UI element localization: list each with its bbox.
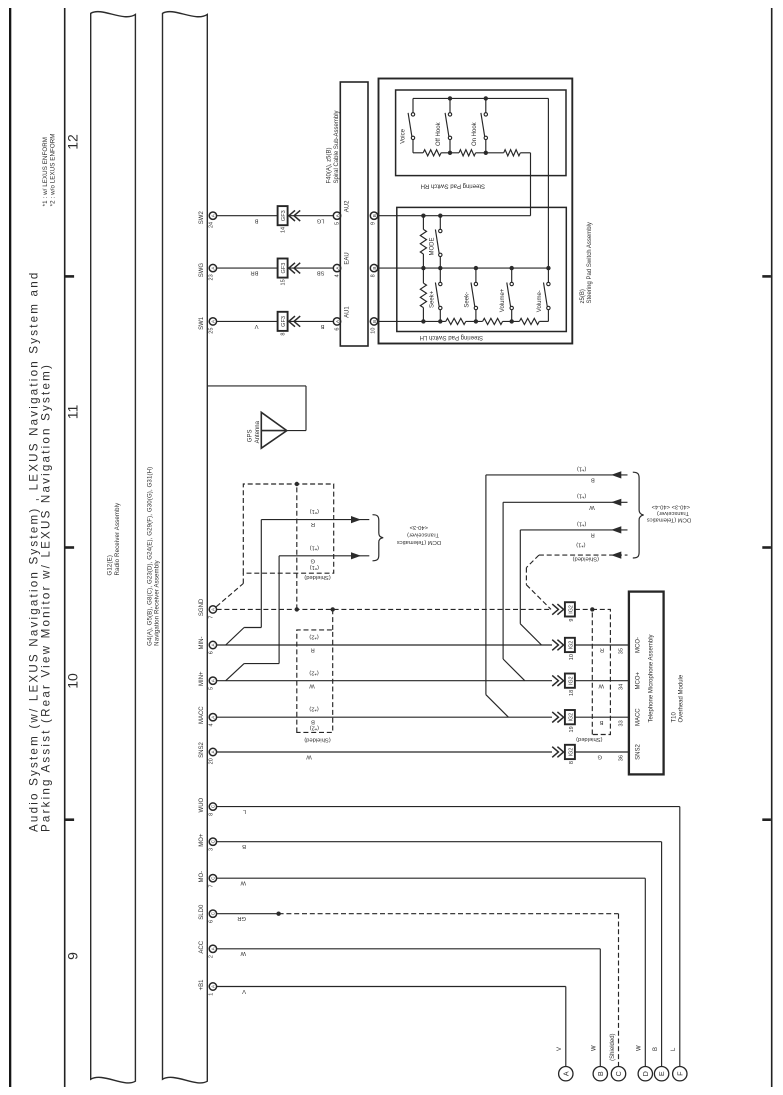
GPS antenna (248, 412, 287, 448)
wire SGND shield drain (dashed) (217, 608, 552, 610)
resistor LH Volume+ (483, 318, 503, 324)
svg-text:DCM (Telematics: DCM (Telematics (647, 516, 691, 522)
switch Seek+ (430, 268, 442, 321)
resistor LH Volume- (519, 318, 539, 324)
svg-text:W: W (240, 880, 246, 886)
wire MIN- lane (217, 634, 552, 653)
wire SW2 into assembly (378, 153, 531, 216)
pin 4 MACC (navigation receiver) (199, 706, 216, 727)
pin 5 AU2 (spiral cable) (333, 212, 340, 225)
junction connector IG2 pin 19 (552, 710, 575, 732)
svg-text:(*2): (*2) (309, 669, 318, 675)
svg-text:IG2: IG2 (569, 676, 575, 685)
svg-text:9: 9 (370, 222, 376, 225)
navigation receiver assembly G4(A)-G31(H) (147, 12, 208, 1083)
svg-text:33: 33 (618, 720, 624, 726)
svg-text:Transceiver): Transceiver) (657, 510, 689, 516)
pin 1 +B1 (navigation receiver) (199, 979, 216, 996)
svg-text:F40(A), z5(B): F40(A), z5(B) (327, 147, 333, 183)
svg-text:B: B (591, 477, 595, 483)
node RH bus Off Hook (448, 96, 452, 100)
svg-text:+B1: +B1 (199, 979, 205, 991)
svg-text:R: R (600, 647, 604, 653)
svg-text:Transceiver): Transceiver) (407, 531, 439, 537)
svg-text:R: R (311, 647, 315, 653)
svg-text:IG2: IG2 (569, 641, 575, 650)
svg-text:23: 23 (208, 274, 214, 280)
svg-text:LG: LG (316, 217, 324, 223)
DCM telematics transceiver (right) (633, 472, 691, 558)
wire SNS2 lane W (217, 752, 552, 760)
svg-text:Steering Pad Switch RH: Steering Pad Switch RH (421, 183, 485, 189)
svg-text:(*1): (*1) (577, 520, 586, 526)
pin 3 MO+ (navigation receiver) (199, 833, 216, 851)
node RH chain On Hook (484, 151, 488, 155)
svg-text:10: 10 (569, 654, 575, 660)
svg-text:*1 : w/ LEXUS ENFORM: *1 : w/ LEXUS ENFORM (42, 137, 49, 206)
junction connector GF3 pin 14 (278, 206, 301, 233)
svg-text:6: 6 (208, 651, 214, 654)
svg-text:Radio Receiver Assembly: Radio Receiver Assembly (114, 502, 121, 576)
resistor Seek+ (420, 268, 426, 321)
svg-text:Steering Pad Switch Assembly: Steering Pad Switch Assembly (587, 222, 593, 303)
svg-text:T10: T10 (671, 711, 677, 722)
node EAU Seek- (474, 266, 478, 270)
svg-text:MACC: MACC (199, 706, 205, 724)
svg-text:(Shielded): (Shielded) (573, 556, 599, 562)
switch On Hook (472, 98, 488, 152)
pin 2 ACC (navigation receiver) (199, 940, 216, 958)
svg-text:Voice: Voice (400, 128, 406, 143)
svg-text:MODE: MODE (430, 238, 436, 256)
svg-text:6: 6 (208, 920, 214, 923)
svg-text:Volume-: Volume- (537, 290, 543, 312)
svg-text:11: 11 (65, 405, 81, 420)
steering pad switch LH box (397, 207, 567, 340)
svg-text:7: 7 (208, 616, 214, 619)
wire DCM shield (dashed) (526, 542, 627, 610)
svg-text:<40-3>: <40-3> (409, 524, 428, 530)
wire DCM R (*1) to MCO- (520, 520, 627, 645)
svg-text:9: 9 (65, 952, 81, 960)
svg-text:AU2: AU2 (345, 200, 351, 212)
DCM telematics transceiver (left) (373, 515, 442, 561)
node chain Seek+ resistor (421, 319, 425, 323)
connector D (638, 1067, 652, 1081)
resistor RH Off Hook (459, 150, 476, 156)
wire SWG SB (287, 268, 333, 276)
wire WUO L to connector F (217, 807, 680, 1067)
svg-text:36: 36 (618, 755, 624, 761)
svg-text:MCO-: MCO- (636, 637, 642, 653)
wire GPS antenna feed (208, 386, 306, 431)
wire MACC lane (217, 706, 552, 731)
switch Seek- (464, 268, 477, 321)
pin 4 EAU (spiral cable) (333, 264, 340, 277)
svg-text:4: 4 (208, 723, 214, 726)
steering pad switch RH box (396, 90, 566, 189)
svg-text:(*1): (*1) (310, 508, 319, 514)
svg-text:B: B (596, 1071, 605, 1076)
wire DCM B (*1) to MACC (486, 465, 628, 717)
junction connector IG2 pin 9 (552, 602, 575, 621)
svg-text:Overhead Module: Overhead Module (679, 674, 685, 722)
node EAU Volume+ (510, 266, 514, 270)
node SW2 MODE switch tap (438, 214, 442, 218)
svg-text:W: W (306, 754, 312, 760)
connector C (611, 1067, 625, 1081)
pin 8 WUO (navigation receiver) (199, 797, 216, 815)
svg-text:*2 : w/o LEXUS ENFORM: *2 : w/o LEXUS ENFORM (49, 133, 56, 206)
wire MO+ B to connector E (217, 842, 662, 1067)
svg-text:18: 18 (569, 690, 575, 696)
wire SGND to shield box (575, 607, 595, 611)
pin 23 SWG (navigation receiver) (199, 263, 216, 281)
svg-text:3: 3 (208, 848, 214, 851)
steering pad switch assembly z5(B) (379, 79, 593, 344)
svg-text:Spiral Cable Sub-Assembly: Spiral Cable Sub-Assembly (334, 110, 340, 183)
svg-text:Parking Assist (Rear View Moni: Parking Assist (Rear View Monitor w/ LEX… (39, 363, 52, 832)
wire AU1 chain into assembly (378, 320, 549, 322)
svg-text:SWG: SWG (199, 263, 205, 278)
node RH chain Off Hook (448, 151, 452, 155)
junction connector GF3 pin 15 (278, 259, 301, 286)
svg-text:(*1): (*1) (310, 564, 319, 570)
svg-text:(Shielded): (Shielded) (304, 737, 330, 743)
node chain Volume+ (510, 319, 514, 323)
spiral cable sub-assembly F40(A) z5(B) (327, 82, 368, 346)
svg-text:8: 8 (370, 274, 376, 277)
svg-text:Seek+: Seek+ (430, 290, 436, 308)
svg-text:W: W (309, 682, 315, 688)
wire MACC B (575, 717, 629, 725)
junction connector IG2 pin 10 (552, 638, 575, 660)
svg-text:(*1): (*1) (310, 544, 319, 550)
radio receiver assembly G12(E) (91, 12, 136, 1083)
svg-text:B: B (255, 217, 259, 223)
svg-text:7: 7 (208, 884, 214, 887)
svg-text:4: 4 (334, 274, 340, 277)
svg-text:MO-: MO- (199, 871, 205, 883)
svg-text:<40-3> <40-4>: <40-3> <40-4> (651, 504, 690, 510)
svg-text:B: B (372, 267, 377, 270)
svg-text:DCM (Telematics: DCM (Telematics (397, 539, 441, 545)
svg-text:MO+: MO+ (199, 833, 205, 847)
svg-text:MIN+: MIN+ (199, 671, 205, 686)
switch MODE (430, 216, 442, 268)
svg-text:Volume+: Volume+ (500, 288, 506, 312)
node RH bus On Hook (484, 96, 488, 100)
svg-text:10: 10 (370, 328, 376, 334)
svg-text:GF3: GF3 (281, 316, 287, 327)
svg-text:SNS2: SNS2 (636, 744, 642, 760)
svg-text:MACC: MACC (636, 708, 642, 726)
switch Voice (400, 98, 414, 152)
node chain Seek- (474, 319, 478, 323)
svg-text:GF3: GF3 (281, 210, 287, 221)
shielded cable right (mic lines) (576, 609, 610, 742)
switch Off Hook (436, 98, 452, 152)
wire DCM W (*1) to MCO+ (503, 493, 627, 681)
resistor RH On Hook (504, 150, 521, 156)
svg-text:EAU: EAU (345, 252, 351, 264)
node EAU MODE switch (438, 266, 442, 270)
svg-text:1: 1 (208, 993, 214, 996)
svg-text:R: R (591, 532, 595, 538)
RH common bus (413, 98, 548, 268)
svg-text:SNS2: SNS2 (199, 742, 205, 758)
svg-text:G12(E): G12(E) (107, 555, 114, 576)
svg-text:Off Hook: Off Hook (436, 121, 442, 146)
svg-text:25: 25 (208, 328, 214, 334)
wire SW1 V (217, 321, 279, 329)
wire SW2 B (217, 216, 279, 224)
svg-text:35: 35 (618, 648, 624, 654)
svg-text:34: 34 (618, 684, 624, 690)
wire ACC W to connector B (217, 949, 601, 1067)
svg-text:(Shielded): (Shielded) (576, 736, 602, 742)
wire SW1 B (287, 321, 333, 329)
svg-text:19: 19 (569, 726, 575, 732)
svg-text:B: B (600, 719, 604, 725)
svg-text:W: W (637, 1045, 643, 1051)
pin 20 SNS2 (navigation receiver) (199, 742, 216, 765)
svg-text:ACC: ACC (199, 940, 205, 953)
svg-text:2: 2 (208, 955, 214, 958)
svg-text:AU1: AU1 (345, 306, 351, 318)
shielded cable (+1) R/G pair (243, 484, 333, 580)
svg-text:V: V (255, 323, 259, 329)
svg-text:IG2: IG2 (569, 605, 575, 614)
svg-text:5: 5 (334, 222, 340, 225)
svg-text:(*2): (*2) (309, 634, 318, 640)
RH resistor ladder bus (413, 152, 531, 154)
svg-text:SW2: SW2 (199, 211, 205, 225)
svg-text:SLD0: SLD0 (199, 904, 205, 920)
svg-text:Antenna: Antenna (255, 420, 261, 443)
svg-text:(Shielded): (Shielded) (304, 574, 330, 580)
svg-text:F: F (675, 1071, 684, 1076)
wire SW2 LG (287, 216, 333, 224)
svg-text:B: B (372, 320, 377, 323)
connector B (593, 1067, 607, 1081)
wire MCO+ W (575, 681, 629, 689)
wire +B1 V to connector A (217, 987, 566, 1067)
svg-text:W: W (598, 682, 604, 688)
svg-text:B: B (242, 843, 246, 849)
pin 8 EAU (spiral cable lower) (370, 264, 377, 277)
svg-text:B: B (321, 323, 325, 329)
wire MIN+ G to DCM (*1) (226, 544, 370, 680)
svg-text:B: B (372, 214, 377, 217)
connector A (559, 1067, 573, 1081)
svg-text:(*1): (*1) (577, 465, 586, 471)
wire MIN- R to DCM (*1) (226, 508, 370, 645)
pin 6 MIN- (navigation receiver) (199, 637, 216, 655)
svg-text:5: 5 (208, 687, 214, 690)
pin 9 AU2 (spiral cable lower) (370, 212, 377, 225)
pin 6 AU1 (spiral cable) (333, 318, 340, 331)
svg-text:On Hook: On Hook (472, 121, 478, 146)
svg-text:MCO+: MCO+ (636, 671, 642, 689)
node SW2 MODE resistor tap (421, 214, 425, 218)
svg-text:(*1): (*1) (577, 493, 586, 499)
svg-text:8: 8 (281, 333, 287, 336)
wire SGND to upper shield (dashed diagonal) (216, 573, 243, 607)
svg-text:14: 14 (281, 227, 287, 233)
svg-text:z5(B): z5(B) (580, 289, 586, 303)
svg-text:B: B (653, 1047, 659, 1051)
connector E (654, 1067, 668, 1081)
svg-text:9: 9 (569, 619, 575, 622)
pin 5 MIN+ (navigation receiver) (199, 671, 216, 690)
svg-text:Telephone Microphone Assembly: Telephone Microphone Assembly (649, 634, 655, 722)
svg-text:R: R (311, 521, 315, 527)
svg-text:WUO: WUO (199, 797, 205, 812)
shielded cable (+2) lower (297, 630, 333, 743)
wire MO- W to connector D (217, 878, 646, 1066)
svg-text:SGND: SGND (199, 598, 205, 616)
pin 7 MO- (navigation receiver) (199, 871, 216, 888)
svg-text:8: 8 (208, 813, 214, 816)
svg-text:Seek-: Seek- (464, 292, 470, 308)
junction connector IG2 pin 8 (552, 745, 575, 764)
svg-text:IG2: IG2 (569, 748, 575, 757)
junction connector GF3 pin 8 (278, 312, 301, 336)
svg-text:(*2): (*2) (309, 706, 318, 712)
node EAU / RH bus / Volume- (546, 266, 550, 270)
svg-text:10: 10 (65, 673, 81, 689)
svg-text:W: W (589, 504, 595, 510)
svg-text:SB: SB (317, 270, 325, 276)
wire SNS2 G (575, 752, 629, 760)
wire EAU into assembly (378, 267, 549, 269)
wire MIN+ lane (217, 669, 552, 688)
pin 25 SW1 (navigation receiver) (199, 316, 216, 333)
pin 6 SLD0 (navigation receiver) (199, 904, 216, 923)
svg-text:D: D (641, 1071, 650, 1076)
svg-text:W: W (592, 1045, 598, 1051)
wire MCO- R (575, 645, 629, 653)
svg-text:GPS: GPS (248, 430, 254, 443)
connector F (673, 1067, 687, 1081)
junction connector IG2 pin 18 (552, 674, 575, 696)
node shield tap lower box (331, 607, 335, 630)
svg-text:Navigation Receiver Assembly: Navigation Receiver Assembly (153, 559, 160, 645)
svg-text:B: B (311, 718, 315, 724)
svg-text:G: G (597, 754, 602, 760)
svg-text:SW1: SW1 (199, 316, 205, 330)
resistor RH Voice (423, 150, 441, 156)
svg-text:GR: GR (237, 915, 246, 921)
svg-text:6: 6 (334, 328, 340, 331)
svg-text:GF3: GF3 (281, 263, 287, 274)
svg-text:(*2): (*2) (310, 725, 319, 731)
pin 7 SGND (navigation receiver) (199, 598, 216, 619)
pin 24 SW2 (navigation receiver) (199, 211, 216, 228)
svg-text:Steering Pad Switch LH: Steering Pad Switch LH (420, 334, 483, 340)
node EAU MODE resistor (421, 266, 425, 270)
svg-text:IG2: IG2 (569, 713, 575, 722)
node shield tap upper box (295, 482, 299, 612)
pin 10 AU1 (spiral cable lower) (370, 318, 377, 334)
svg-text:BR: BR (250, 270, 258, 276)
wire SWG BR (217, 268, 279, 276)
node chain Seek+ switch (438, 319, 442, 323)
svg-text:(Shielded): (Shielded) (610, 1033, 616, 1060)
svg-text:20: 20 (208, 758, 214, 764)
resistor LH Seek- (446, 318, 466, 324)
svg-text:MIN-: MIN- (199, 637, 205, 650)
svg-text:E: E (657, 1071, 666, 1076)
svg-text:12: 12 (65, 134, 81, 150)
switch Volume+ (500, 268, 513, 321)
svg-text:V: V (557, 1047, 563, 1051)
telephone microphone assembly / overhead module T10 (618, 592, 684, 775)
svg-text:8: 8 (569, 761, 575, 764)
wire SLD0 GR to connector C (217, 912, 619, 1067)
switch Volume- (537, 268, 550, 321)
resistor MODE (420, 216, 426, 268)
svg-text:(*1): (*1) (576, 542, 585, 548)
svg-text:W: W (240, 950, 246, 956)
svg-text:V: V (242, 988, 246, 994)
svg-text:15: 15 (281, 279, 287, 285)
svg-text:C: C (614, 1071, 623, 1076)
svg-text:24: 24 (208, 222, 214, 228)
svg-text:G: G (310, 558, 315, 564)
svg-text:A: A (561, 1071, 570, 1076)
